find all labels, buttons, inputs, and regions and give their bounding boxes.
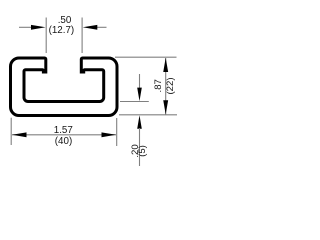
stem .20 lower [139, 128, 141, 166]
extension line slot left [45, 18, 47, 54]
arrow .87 down [163, 100, 168, 114]
extension line wall upper [120, 101, 149, 103]
arrow .50 left [31, 25, 46, 30]
arrow 1.57 right [102, 132, 117, 137]
channel profile outline [11, 58, 118, 116]
extension line height bottom [119, 114, 177, 116]
leader line .50 left [19, 26, 32, 28]
arrow 1.57 left [12, 132, 27, 137]
arrow .20 up [137, 115, 142, 129]
stem .20 upper [139, 74, 141, 90]
dimension line .87 [165, 58, 167, 115]
svg-text:(12.7): (12.7) [49, 25, 75, 36]
extension line width left [10, 118, 12, 145]
leader line .50 right [97, 26, 107, 28]
arrow .50 right [83, 25, 98, 30]
extension line slot right [81, 18, 83, 54]
arrow .87 up [163, 58, 168, 72]
extension line height top [115, 56, 177, 58]
arrow .20 down [137, 88, 142, 102]
extension line width right [116, 118, 118, 146]
svg-text:(5): (5) [137, 145, 148, 157]
svg-text:(40): (40) [55, 136, 72, 147]
svg-text:.87: .87 [153, 79, 164, 92]
svg-text:1.57: 1.57 [54, 125, 73, 136]
dimension line 1.57 [12, 134, 116, 136]
svg-text:(22): (22) [165, 77, 176, 94]
